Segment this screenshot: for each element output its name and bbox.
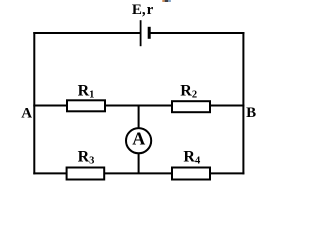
wire: top side left segment (to battery) — [33, 32, 140, 34]
stray cropped text fragment at top edge — [162, 0, 171, 2]
svg-text:A: A — [21, 105, 32, 121]
svg-text:R3: R3 — [78, 149, 95, 167]
svg-text:A: A — [132, 129, 145, 149]
wire: bottom side — [33, 172, 244, 174]
ammeter U1 circle — [126, 128, 151, 153]
resistor R4 — [172, 168, 210, 180]
svg-text:R2: R2 — [180, 83, 197, 101]
resistor R1 — [67, 100, 105, 111]
wire: left vertical through node A — [33, 32, 35, 174]
resistor R2 — [172, 101, 210, 112]
battery E short plate — [148, 27, 151, 39]
svg-text:R4: R4 — [183, 149, 201, 167]
svg-text:R1: R1 — [78, 83, 95, 101]
wire: ammeter branch vertical — [138, 106, 140, 174]
wire: middle horizontal from A to B — [33, 105, 244, 107]
wire: right vertical through node B — [242, 32, 244, 174]
resistor R3 — [67, 168, 105, 180]
battery E long plate — [140, 20, 142, 46]
svg-text:E,r: E,r — [132, 2, 154, 18]
svg-text:B: B — [246, 105, 256, 121]
wire: top side right segment (from battery) — [149, 32, 244, 34]
